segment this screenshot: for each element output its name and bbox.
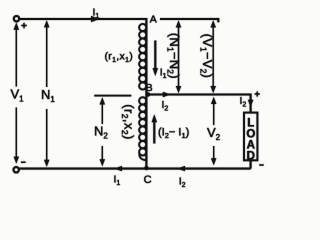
svg-text:(r2,x2): (r2,x2) [120,104,137,139]
dimension (V1-V2) arrowheads [210,20,216,93]
winding upper loops [139,24,146,90]
dimension V1 shafts [15,29,17,159]
svg-text:C: C [144,174,152,186]
reference tick for N2 [94,95,131,97]
svg-text:I2: I2 [162,99,169,113]
current arrow (I2-I1) in lower winding [153,122,155,144]
current arrow I1 top [91,16,100,22]
current arrow I2 into load [248,100,254,108]
load box [244,113,257,161]
svg-text:V2: V2 [207,125,221,142]
minus sign at load [259,164,264,166]
wire load bottom stub [250,160,252,168]
dimension N1 shafts [46,26,48,161]
dimension N1 arrowheads [44,20,50,167]
svg-text:A: A [150,14,157,26]
svg-text:V1: V1 [11,87,25,104]
node C junction dot [144,166,148,170]
svg-text:N1: N1 [41,87,55,104]
terminal bottom-left [14,167,19,172]
current arrow I1 bottom [114,166,122,171]
load letters [246,118,255,163]
svg-text:I1: I1 [160,68,167,81]
svg-text:(N1−N2): (N1−N2) [166,33,183,79]
svg-text:I2: I2 [179,175,186,189]
svg-text:I1: I1 [93,7,100,21]
dimension (N1-N2) shaft [178,26,180,88]
bottom wire [19,168,251,170]
wire B to load corner [148,95,251,113]
winding bottom curl [139,153,146,160]
svg-text:B: B [146,82,153,94]
current arrow I2 bottom [177,166,185,171]
plus sign at load [255,91,260,96]
winding upper conductor line [145,22,147,95]
svg-text:(I2− I1): (I2− I1) [158,126,189,140]
dimension V2 shafts [213,103,215,161]
svg-text:N2: N2 [94,124,108,141]
dimension N2 arrowheads [100,97,106,166]
node B junction dot [146,92,150,96]
dimension V2 arrowheads [211,97,217,166]
dimension (V1-V2) shaft [212,26,214,88]
wire top from terminal to A [19,19,146,24]
svg-text:I2: I2 [240,95,247,109]
current arrow I1 in upper winding [154,41,156,69]
terminal top-left [14,16,19,21]
dimension V1 arrowheads [14,23,19,164]
winding lower conductor line [145,95,147,169]
wire top reference right of A [160,19,218,22]
plus sign input [21,23,26,28]
dimension N2 shafts [101,103,103,161]
minus sign input [21,161,26,163]
svg-text:I1: I1 [114,174,121,188]
current arrow I2 on B wire [163,92,171,97]
winding lower loops [139,97,146,155]
svg-text:(r1,x1): (r1,x1) [105,50,134,64]
dimension (N1-N2) arrowheads [176,20,182,93]
